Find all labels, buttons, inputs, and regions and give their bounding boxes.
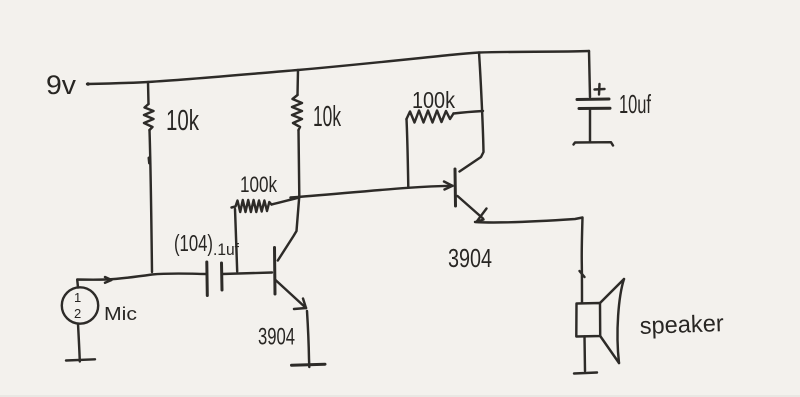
svg-text:speaker: speaker xyxy=(639,310,724,340)
svg-text:100k: 100k xyxy=(412,87,455,113)
svg-text:1: 1 xyxy=(74,290,81,305)
svg-text:9v: 9v xyxy=(46,70,77,100)
svg-text:10k: 10k xyxy=(166,105,199,137)
svg-text:10uf: 10uf xyxy=(619,89,651,119)
svg-text:Mic: Mic xyxy=(104,304,137,324)
svg-text:10k: 10k xyxy=(313,101,341,133)
svg-text:100k: 100k xyxy=(240,172,278,197)
svg-text:3904: 3904 xyxy=(258,324,295,351)
svg-text:(104): (104) xyxy=(174,230,213,256)
svg-text:.1uf: .1uf xyxy=(213,240,239,259)
svg-text:3904: 3904 xyxy=(448,243,492,273)
svg-text:2: 2 xyxy=(74,306,81,321)
